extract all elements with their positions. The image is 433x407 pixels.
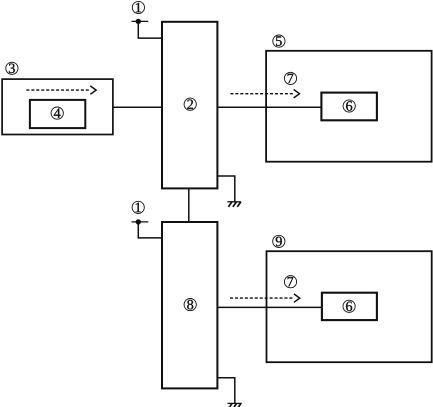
wire: bottom terminal to block 8 bbox=[138, 222, 162, 238]
block 9 label bbox=[273, 235, 285, 247]
node 1 label (bottom input terminal) bbox=[132, 201, 144, 213]
terminal symbol (bottom input, stub line with junction dot) bbox=[132, 219, 149, 224]
node 1 label (top input terminal) bbox=[132, 1, 144, 13]
signal-flow label 7 (top) bbox=[284, 72, 296, 84]
block 9 (bottom-right outer box) bbox=[267, 251, 432, 362]
block 3 label bbox=[6, 62, 18, 74]
block 2 label bbox=[184, 98, 196, 110]
wire: block 2 bottom to block 8 top bbox=[188, 188, 190, 222]
block 6 (bottom inner box) bbox=[322, 293, 377, 320]
block 5 label bbox=[273, 35, 285, 47]
block 4 (inner box of block 3) bbox=[30, 100, 85, 128]
block 2 (tall center box, top) bbox=[162, 22, 217, 189]
block 8 (tall center box, bottom) bbox=[162, 222, 217, 388]
terminal symbol (top input, stub line with junction dot) bbox=[132, 19, 149, 24]
dashed signal-flow arrow 7 (top) bbox=[230, 90, 299, 98]
block 6 label (bottom) bbox=[343, 300, 355, 312]
block 6 (top inner box) bbox=[321, 93, 377, 121]
signal-flow label 7 (bottom) bbox=[284, 276, 296, 288]
dashed signal-flow arrow 7 (bottom) bbox=[230, 294, 300, 302]
block 4 label bbox=[51, 107, 63, 119]
ground (top, chassis style) bbox=[227, 202, 241, 207]
wire: block 8 to ground (bottom) bbox=[217, 378, 234, 404]
wire: block 2 to ground (top) bbox=[217, 176, 234, 202]
block 8 label bbox=[184, 299, 196, 311]
block 6 label (top) bbox=[343, 100, 355, 112]
wire: block 2 to block 6 (top) bbox=[217, 106, 321, 108]
block 3 (left outer box) bbox=[2, 79, 113, 134]
block 5 (top-right outer box) bbox=[266, 51, 432, 162]
wire: block 8 to block 6 (bottom) bbox=[217, 306, 322, 308]
wire: block 3 to block 2 bbox=[113, 106, 162, 108]
wire: top terminal to block 2 bbox=[138, 21, 162, 38]
dashed signal-flow arrow inside block 3 bbox=[26, 86, 96, 94]
ground (bottom, chassis style) bbox=[228, 403, 242, 407]
